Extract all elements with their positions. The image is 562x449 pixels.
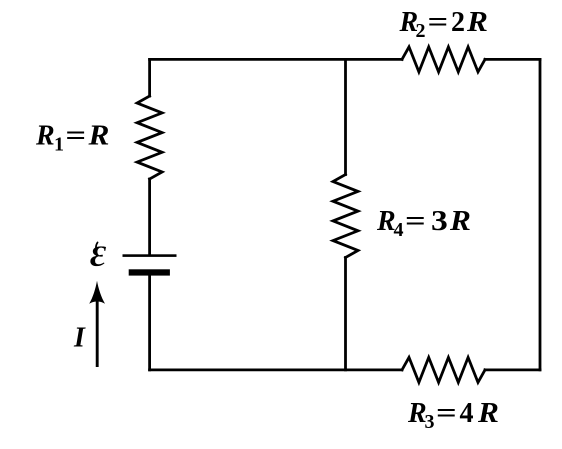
svg-text:4: 4 [460, 398, 474, 429]
svg-text:R: R [477, 398, 499, 428]
svg-text:2: 2 [416, 20, 426, 42]
EMF label script-E (curly epsilon) [90, 230, 107, 276]
svg-text:R: R [87, 121, 109, 151]
battery EMF source: positive plate (long thin) [123, 254, 177, 257]
svg-text:2: 2 [451, 7, 465, 38]
wire: bottom horizontal from bottom-left corner through node C to R3 left terminal [150, 368, 402, 371]
svg-text:=: = [65, 120, 86, 151]
current arrow I: arrowhead [89, 281, 105, 304]
wire: top-right from R2 right terminal to top-right corner [485, 58, 540, 61]
svg-text:I: I [73, 323, 86, 354]
wire: left branch from battery negative plate to bottom-left corner [148, 276, 151, 370]
label: R1 = R [35, 120, 109, 155]
svg-text:1: 1 [54, 134, 64, 156]
wire: bottom-right from bottom-right corner to R3 right terminal [485, 368, 540, 371]
label: R4 = 3R [376, 205, 471, 241]
resistor R1 [137, 96, 162, 179]
svg-text:=: = [436, 398, 457, 429]
svg-text:3: 3 [425, 411, 435, 433]
svg-text:R: R [466, 7, 488, 37]
battery EMF source: negative plate (short thick) [129, 269, 170, 275]
svg-text:R: R [35, 121, 55, 152]
svg-text:=: = [405, 206, 426, 237]
svg-text:=: = [428, 7, 449, 38]
wire: left branch between R1 and battery positive plate [148, 179, 151, 254]
resistor R3 [402, 357, 485, 382]
svg-text:ε: ε [90, 230, 107, 276]
svg-text:3: 3 [431, 205, 448, 237]
resistor R2 [402, 47, 485, 72]
wire: right vertical side [539, 59, 542, 370]
wire: top horizontal from top-left corner through node B to R2 left terminal [150, 58, 402, 61]
resistor R4 [333, 175, 358, 258]
wire: middle branch top stub (node B down to R4) [344, 59, 347, 174]
wire: left branch top stub (top-left corner down to R1) [148, 59, 151, 96]
label: R3 = 4R [407, 398, 499, 433]
label: R2 = 2R [399, 7, 488, 42]
wire: middle branch bottom stub (R4 down to node C on bottom wire) [344, 258, 347, 370]
svg-text:4: 4 [394, 219, 404, 241]
svg-text:R: R [449, 206, 471, 236]
current arrow I: shaft [96, 301, 99, 367]
